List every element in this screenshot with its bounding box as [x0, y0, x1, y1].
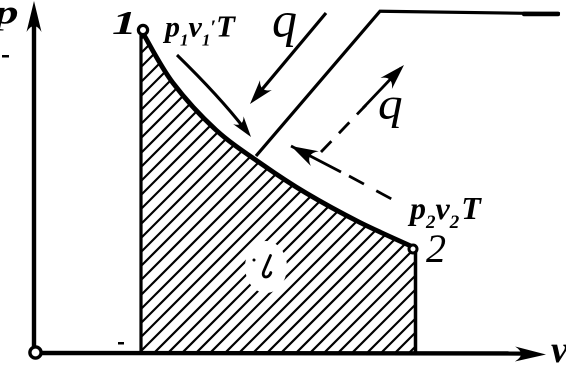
label l (work) [263, 256, 271, 278]
svg-text:p: p [0, 0, 19, 32]
p axis [32, 16, 36, 353]
white gap around l label [245, 241, 287, 293]
svg-text:v: v [551, 329, 566, 371]
svg-text:q: q [378, 80, 403, 129]
dashed leader from p2v2T to curve [291, 146, 341, 172]
frame leader line [256, 11, 560, 156]
point 2 circle [409, 245, 417, 253]
area left edge (v1 line) [139, 34, 142, 352]
heat q out arrow (dashed) [321, 105, 366, 152]
small speck on v axis [118, 342, 124, 345]
small mark left margin [2, 55, 9, 58]
origin circle [30, 347, 41, 358]
heat q in arrow (solid) [254, 13, 326, 99]
v axis [30, 351, 532, 356]
point 1 circle [138, 25, 147, 34]
isotherm curve 1-2 [144, 35, 413, 247]
small dot near l [253, 259, 256, 262]
leader arrow from p1v1T to curve [177, 55, 247, 132]
area right edge (v2 line) [414, 250, 418, 352]
svg-text:q: q [272, 0, 297, 48]
svg-text:p1v1′T: p1v1′T [162, 9, 236, 50]
svg-text:1: 1 [112, 4, 137, 42]
